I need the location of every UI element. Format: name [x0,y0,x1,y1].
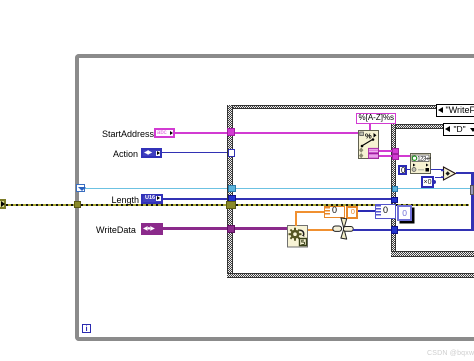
error wire [6,204,469,206]
error in terminal [0,199,6,209]
cyan wire [85,188,471,190]
add triangle [441,166,457,181]
wire neq->add [435,177,444,178]
vertical wire right [471,172,474,231]
wire orange element to blue const [358,210,375,211]
add out wire [456,172,472,174]
label WriteData [96,225,136,235]
Action wire [162,152,228,153]
tunnel StartAddress (outer) [227,128,235,136]
tunnel Action (outer, hollow) [228,149,236,157]
Decimal String To Number icon [410,153,431,174]
Length wire [163,198,392,200]
svg-text:%: % [365,131,372,140]
stub wire constant to match pattern [369,124,371,131]
shift register [76,184,85,192]
cyan tunnel (inner) [392,186,399,193]
inner case selector "D" [443,123,474,136]
label Length [112,195,140,205]
inner case left border [391,124,396,256]
outer case selector "WriteF [436,104,474,117]
typecast out wire [353,229,473,231]
not-equal-zero node [421,176,435,188]
WriteData wire [163,227,288,230]
watermark [427,350,474,358]
outer case bottom border [227,273,474,279]
gear VI [287,225,308,248]
label StartAddress [102,129,154,139]
inner case bottom border [391,251,474,257]
not-equal-zero output nub [434,180,437,185]
outer case structure top border [227,105,474,110]
Length tunnel (inner) [391,197,398,204]
orange wire VI right to typecast [308,229,335,231]
magenta tunnels (inner case) [392,148,399,154]
error in terminal arrow [1,201,5,207]
Match Pattern icon [358,130,379,159]
string constant %[A-Z]%s [356,113,396,125]
outer case left border [227,105,233,279]
blue element box with shadow [397,205,412,222]
type cast [332,217,354,240]
wire icon->add [431,169,444,170]
tunnel WriteData (outer) [227,225,236,233]
WriteData control [141,223,163,235]
blue array constant 0 [375,204,397,219]
typecast tunnel on inner border [391,226,398,234]
label Action [113,149,138,159]
StartAddress string control [154,128,175,139]
svg-text:123↩: 123↩ [417,156,431,162]
Length U16 control [141,194,163,204]
wire match-pattern out 2 [379,155,410,157]
StartAddress wire [175,132,360,134]
wire orange vertical at VI top [295,211,297,226]
orange constant 0 [324,206,345,219]
tunnel Length (outer) [228,195,236,202]
inner case structure top border [391,124,474,129]
blue constant 0 (near 1234 icon) [398,165,407,176]
wire const->icon [407,169,410,170]
while loop [75,54,474,341]
orange element box [346,206,358,220]
Action enum control [141,148,163,158]
shift register triangle [78,187,86,191]
iteration terminal i [82,324,91,333]
tunnel error (outer) [226,201,236,209]
right edge node [470,185,474,196]
wire orange horizontal to constant [295,211,325,213]
error junction on loop border [74,201,81,208]
wire match-pattern out 1 [379,150,392,152]
tunnel cyan (outer) [228,185,236,192]
